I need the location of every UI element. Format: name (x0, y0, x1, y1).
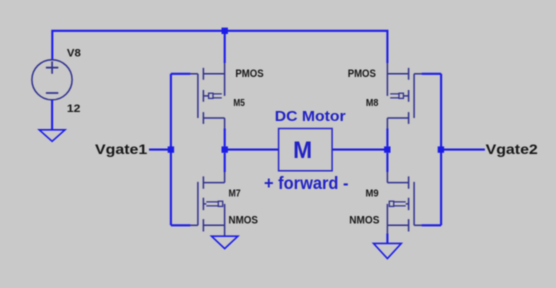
svg-text:M8: M8 (366, 98, 379, 109)
svg-text:PMOS: PMOS (348, 68, 377, 80)
wire motor right to drain node (332, 149, 387, 151)
ground below M7 (212, 236, 238, 248)
svg-text:Vgate2: Vgate2 (486, 142, 538, 158)
wire top rail from V8 to M8 (52, 31, 387, 63)
ground below V8 (39, 130, 65, 142)
node Vgate1 junction (168, 146, 174, 152)
wire M8 drain to node (386, 129, 388, 147)
node motor right junction (384, 146, 390, 152)
ground below M9 (374, 243, 402, 258)
svg-text:V8: V8 (67, 48, 81, 60)
wire node to M9 drain (386, 153, 388, 172)
wire M5 drain to node (224, 129, 226, 147)
wire M9 to ground (386, 233, 388, 243)
svg-text:Vgate1: Vgate1 (95, 142, 147, 158)
node motor left junction (222, 146, 228, 152)
transistor M7 NMOS (190, 172, 224, 236)
wire Vgate2 label lead (441, 149, 485, 151)
svg-text:+ forward -: + forward - (264, 173, 349, 193)
svg-text:12: 12 (67, 103, 81, 115)
node top rail junction (222, 28, 228, 34)
svg-text:PMOS: PMOS (235, 68, 264, 80)
svg-text:DC Motor: DC Motor (275, 109, 346, 125)
node Vgate2 junction (438, 146, 444, 152)
transistor M5 PMOS (190, 63, 224, 129)
DC motor box (279, 129, 333, 171)
svg-text:M5: M5 (233, 98, 245, 109)
wire gate column left (171, 74, 191, 226)
wire rail drop to M5 (224, 31, 226, 63)
transistor M9 NMOS (387, 172, 421, 233)
svg-text:NMOS: NMOS (349, 215, 379, 227)
wire V8 to ground (51, 100, 53, 130)
svg-text:NMOS: NMOS (229, 215, 259, 227)
wire motor left to drain node (225, 149, 279, 151)
svg-text:M: M (293, 137, 312, 164)
svg-text:M7: M7 (229, 189, 242, 200)
wire gate column right (422, 74, 442, 226)
voltage source V8 (32, 60, 72, 100)
wire Vgate1 label lead (149, 149, 171, 151)
transistor M8 PMOS (387, 63, 421, 129)
svg-text:M9: M9 (366, 189, 379, 200)
wire node to M7 drain (224, 153, 226, 172)
